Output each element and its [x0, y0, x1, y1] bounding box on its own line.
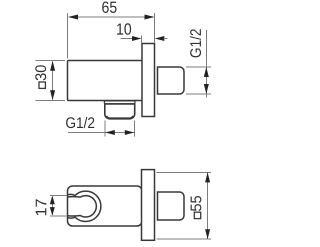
dimension square-55: extension line bottom: [157, 238, 212, 240]
dimension 17: dimension line: [51, 197, 53, 216]
dimension square-55: down arrowhead: [205, 229, 210, 239]
dimension G1/2 outlet: extension line right: [133, 121, 135, 137]
dimension square-30: extension line bottom: [36, 100, 66, 102]
dimension 10: value label: [117, 23, 131, 34]
dimension 65: left arrowhead: [68, 15, 78, 20]
holder arm body (bottom view): [68, 186, 143, 226]
dimension G1/2 right: value label (rotated): [190, 29, 201, 57]
handset holder C-ring (bottom view): [68, 191, 101, 221]
dimension G1/2 outlet: extension line left: [104, 121, 106, 137]
dimension 10: extension line left: [141, 36, 143, 44]
dimension square-30: up arrowhead: [50, 61, 55, 71]
dimension square-30: value label (rotated): [35, 65, 46, 88]
G1/2 inlet block (bottom view): [158, 192, 185, 220]
dimension G1/2 outlet: right arrowhead: [125, 130, 135, 135]
dimension square-30: dimension line: [52, 62, 54, 100]
dimension G1/2 right: up arrowhead: [204, 67, 209, 77]
dimension 17: down arrowhead: [50, 207, 55, 216]
dimension 10: dimension line left part: [121, 38, 135, 40]
dimension square-30: extension line top: [36, 60, 66, 62]
wall flange (bottom view): [142, 170, 155, 241]
dimension G1/2 outlet: leader line: [68, 132, 134, 134]
dimension 65: right arrowhead: [145, 15, 155, 20]
dimension 17: extension line bottom: [50, 215, 67, 217]
dimension G1/2 right: extension line top: [186, 66, 211, 68]
dimension 10: dimension line right tail: [164, 38, 168, 40]
dimension 65: value label: [102, 1, 116, 12]
dimension square-30: down arrowhead: [50, 90, 55, 100]
dimension 65: extension line left: [67, 13, 69, 59]
dimension square-55: up arrowhead: [205, 172, 210, 182]
dimension G1/2 right: extension line bottom: [186, 93, 211, 95]
dimension 17: up arrowhead: [50, 196, 55, 205]
dimension square-55: dimension line: [207, 173, 209, 239]
dimension 17: extension line top: [50, 195, 67, 197]
dimension square-55: extension line top: [157, 171, 212, 173]
dimension G1/2 right: dimension line: [205, 30, 207, 98]
dimension 10: right arrowhead (pointing left): [155, 36, 165, 41]
dimension square-55: value label (rotated): [191, 196, 202, 219]
dimension 10: left arrowhead (pointing right): [132, 36, 142, 41]
outlet collar (top view): [104, 101, 135, 104]
G1/2 inlet block (top view): [158, 67, 185, 94]
dimension 65: dimension line: [69, 16, 153, 18]
dimension 65: extension line right: [154, 13, 156, 43]
dimension G1/2 right: down arrowhead: [204, 84, 209, 94]
dimension G1/2 outlet: value label: [66, 117, 94, 128]
elbow body (top view): [68, 61, 143, 101]
outlet nut G1/2 (top view): [105, 104, 135, 119]
dimension 17: value label (rotated): [36, 199, 47, 215]
outlet nut bottom thick edge: [106, 116, 133, 119]
dimension G1/2 outlet: left arrowhead: [105, 130, 115, 135]
wall flange (top view): [142, 44, 155, 117]
